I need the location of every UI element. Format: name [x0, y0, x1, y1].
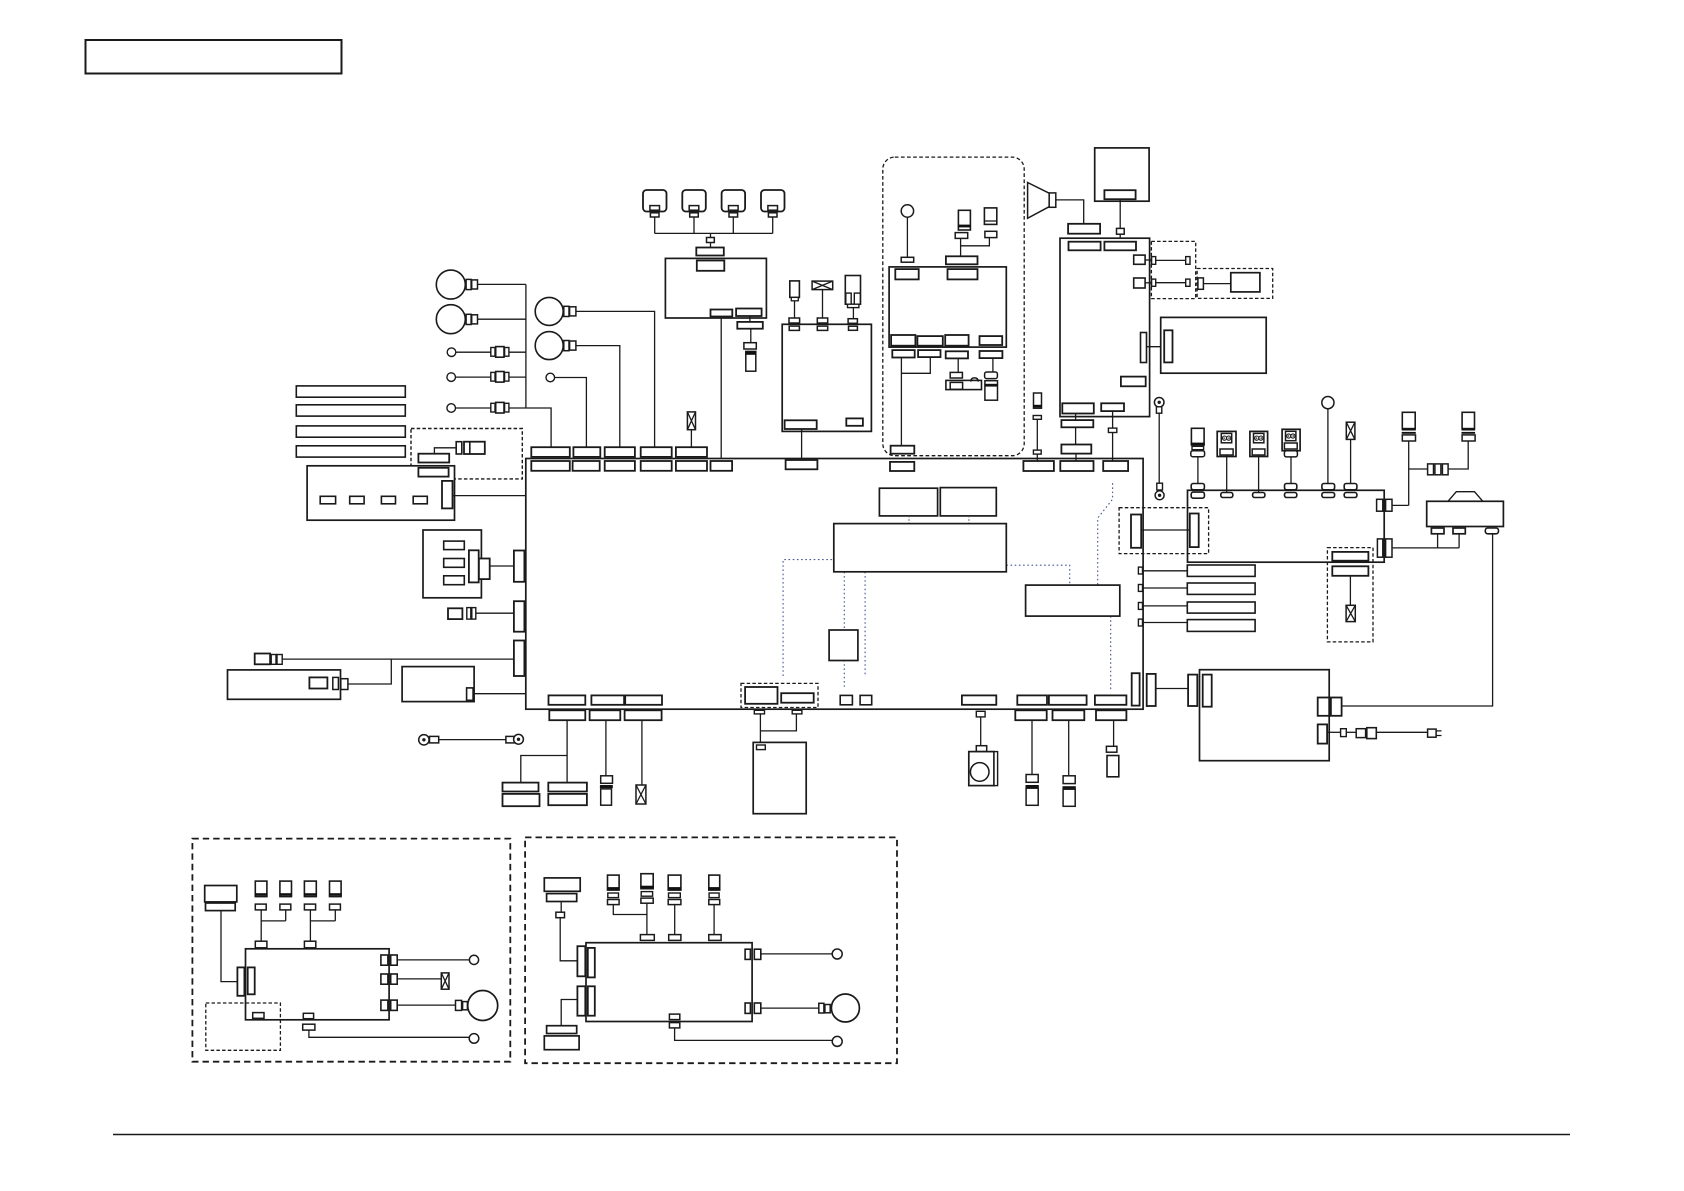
link relay node 1 [879, 488, 937, 516]
option connector P2 [781, 693, 814, 703]
za wire to sensor 2 [397, 959, 469, 961]
inline connector 3x [1428, 464, 1449, 475]
tuner unit box [889, 267, 1006, 347]
junction block JB1 [307, 466, 454, 520]
bus bar B1 [296, 386, 405, 397]
relay bar R2 [1187, 583, 1255, 594]
bottom connector U2b [591, 695, 624, 704]
zb right pair 1 [745, 949, 761, 959]
bus bar B3 [296, 426, 405, 437]
bottom socket V5 small [792, 710, 802, 714]
wire aux to plug [1376, 731, 1427, 733]
audio connector 2 [1104, 242, 1136, 251]
title block (empty) [86, 40, 342, 74]
harness right stub 2 [1138, 585, 1142, 592]
wire L2 [456, 376, 491, 378]
wire tuner1 to T6 [900, 358, 902, 446]
harness left connector E [526, 688, 533, 700]
sensor bulb SB1 [1322, 397, 1334, 409]
bottom socket V4 small [754, 710, 764, 714]
heater right pair 1 [1318, 698, 1342, 716]
FH1 lower cap [1033, 450, 1041, 454]
option socket W2 [1332, 566, 1368, 576]
za right pair B [381, 974, 397, 984]
top connector T2 [573, 447, 600, 457]
wire L1 to bus [509, 351, 526, 353]
wire tuner2 join [901, 357, 930, 373]
inner tiny node 2 [860, 695, 872, 704]
connector H3 [564, 306, 576, 316]
zb left pair 1 [577, 946, 594, 977]
bus bar B4 [296, 446, 405, 457]
za right pair C [381, 1000, 397, 1010]
harness right connector [1131, 515, 1141, 548]
wire port1 [1145, 259, 1152, 261]
fuse F4 [636, 785, 646, 804]
zb wire coil [560, 902, 562, 913]
ring terminal G2 [514, 734, 524, 744]
J3 top pair 2 [817, 318, 827, 330]
top socket S2 [573, 461, 600, 471]
zb pair 4 [709, 935, 721, 950]
diode relay DR1 [1217, 431, 1236, 456]
horn H3 [535, 297, 563, 325]
unit box M2 [402, 667, 474, 702]
wire L2 to bus [509, 376, 526, 378]
wire U1 left pin down to harness [720, 318, 722, 461]
fuse holder FH3 [984, 208, 996, 225]
heater pair [1188, 675, 1212, 707]
zb motor connector [819, 1003, 830, 1013]
za bottom pin [303, 1013, 313, 1018]
wire P2 down [760, 714, 796, 731]
connector L3 pair [491, 402, 509, 413]
fuse holder FH7 [1063, 776, 1076, 807]
dotted link b [843, 572, 845, 688]
bottom socket V1 [549, 710, 585, 720]
battery terminal 3 [1485, 528, 1498, 534]
za wire f1f2 [261, 910, 286, 941]
zb coil pack 2 [544, 1026, 579, 1050]
U1 connector bottom-right [736, 309, 762, 317]
dotted link a [783, 560, 834, 676]
connector L1 pair [491, 347, 509, 358]
JB1 terminal 3 [381, 496, 395, 504]
option connector P1 [745, 687, 777, 704]
tuner connector bottom 3 [945, 335, 968, 346]
connector H2 [466, 314, 477, 324]
lamp L2 [447, 373, 456, 382]
inner unit box 1 [834, 524, 1007, 572]
K1 terminal 1 [444, 541, 465, 550]
fuse holder FH9 [1402, 412, 1416, 441]
top connector T4 [641, 447, 672, 457]
wire tuner4 down [992, 358, 994, 372]
relay RL1 [503, 783, 540, 807]
rf top tab below 2 [1221, 493, 1233, 498]
lamp L1 [447, 348, 456, 357]
bottom connector U3b [625, 695, 662, 704]
fuse F3 [687, 412, 695, 430]
wire inline to FH10 [1448, 441, 1468, 469]
top socket S6 [711, 461, 733, 471]
bottom connector U1b [549, 695, 586, 704]
G2 lug [506, 736, 515, 743]
connector D1 pair [255, 654, 283, 665]
tuner connector top 2 [948, 269, 978, 279]
speaker joint [976, 746, 986, 752]
option connector Q1 [1198, 278, 1204, 289]
za fuse F7 [441, 973, 449, 989]
wire L4 to harness [555, 378, 587, 448]
za sensor bulb 2 [469, 955, 478, 964]
bus bar B2 [296, 405, 405, 416]
battery terminal 2 [1453, 528, 1465, 534]
wire H4 to harness [576, 346, 620, 448]
aux joint [1341, 729, 1347, 737]
fuse holder FH1 [1033, 393, 1042, 408]
top socket S4 [641, 461, 672, 471]
wire FH3 join [961, 238, 990, 246]
wire RL3 down [852, 308, 854, 319]
A1 base connector [901, 257, 914, 262]
connector H1 [466, 279, 477, 289]
zb pair 3 [669, 935, 681, 950]
M1 edge pair [333, 677, 348, 689]
dotted link d [1006, 565, 1069, 585]
top socket S10 [1060, 461, 1093, 471]
wire P1 down [759, 714, 761, 743]
joint connector AB [946, 256, 978, 264]
bottom socket V6 small [976, 711, 985, 717]
za pair 2 [304, 941, 315, 956]
audio bottom connector 1 [1062, 403, 1094, 413]
inner tiny node 1 [840, 695, 852, 704]
wire F8 down [822, 290, 824, 318]
rf right port pair 1 [1377, 499, 1392, 511]
zb wire f4 [713, 905, 715, 935]
wire battery feed [1342, 534, 1493, 706]
zb fuse holder 1 [607, 875, 620, 905]
za wire coil to unit [221, 911, 237, 982]
relay RL2 [548, 783, 587, 806]
dashed option frame 6 [1119, 508, 1209, 554]
wire DR1 down [1226, 455, 1228, 493]
wire C1 to harness [476, 612, 514, 614]
connector H4 [564, 341, 576, 351]
bottom socket V2 [590, 710, 621, 720]
horn H1 [436, 270, 465, 299]
horn H2 [436, 305, 465, 334]
wire aux [1346, 731, 1356, 733]
main harness box [526, 459, 1143, 710]
wire joint2 to S11 [1112, 433, 1114, 462]
tuner connector bottom 2 [917, 336, 942, 346]
audio side port 1 [1134, 255, 1145, 264]
rf top tab below 4 [1285, 493, 1297, 498]
switch S4 [761, 190, 785, 217]
rf right port pair 2 [1377, 539, 1392, 557]
rf left connector [1190, 514, 1199, 548]
fuse F2 body [745, 351, 756, 371]
switch S2 [682, 190, 706, 217]
joint connector J1 [707, 238, 715, 243]
zb wire to coil2 [561, 1000, 577, 1026]
bottom socket V7 [1015, 710, 1046, 720]
K1 terminal 3 [444, 576, 465, 585]
zb coil joint [556, 912, 565, 918]
option connector W1 [1332, 552, 1368, 561]
zb wire to sensor 2 [675, 1028, 833, 1041]
bottom connector U7b [1095, 695, 1127, 704]
radio joint [1117, 228, 1125, 234]
zb wire f1 [613, 905, 647, 915]
top socket S11 [1103, 461, 1128, 471]
tuner connector bottom 1 [891, 335, 915, 346]
zb wire to motor [761, 1007, 819, 1009]
bottom connector U5b [1017, 695, 1047, 704]
wire V3 down [641, 720, 643, 785]
tuner socket 4 [980, 351, 1003, 358]
bottom connector U4b [962, 695, 996, 704]
zb fuse holder 3 [668, 875, 682, 905]
harness right stub 4 [1138, 619, 1142, 626]
harness left connector B pair [514, 551, 538, 582]
wire JB1 to harness [453, 495, 528, 497]
zb left pair 2 [577, 986, 594, 1015]
wire DR2 down [1258, 455, 1260, 493]
audio inner connector [1121, 377, 1146, 387]
wire earth strap [439, 739, 506, 741]
FH1 cap [1033, 416, 1041, 420]
wire L3 to bus [509, 407, 526, 409]
wire E1 to E2 [1158, 413, 1160, 483]
dotted link f [1110, 616, 1112, 690]
fuse holder FH4 [985, 381, 998, 401]
bottom socket V8 [1053, 710, 1085, 720]
top connector T5 [676, 447, 707, 457]
speaker SP1 [969, 752, 998, 786]
rf top tab below 1 [1191, 492, 1204, 498]
dashed sub zone [206, 1003, 281, 1050]
audio connector 1 [1069, 242, 1101, 251]
diode relay DR2 [1250, 431, 1268, 456]
radio unit [1095, 148, 1149, 201]
wire J3 to S7 [801, 429, 803, 460]
connector F2 head [744, 343, 756, 349]
jumper lead 2 [1152, 279, 1190, 286]
zb wire f3 [674, 905, 676, 935]
harness left connector A [528, 481, 539, 509]
fuse F8 [812, 281, 833, 290]
buzzer base [946, 380, 982, 389]
tuner socket 3 [946, 351, 968, 358]
wire D1 to harness [282, 658, 514, 660]
wire V8 down [1068, 720, 1070, 776]
wire H1 to bus [478, 283, 526, 285]
switch box K1 [423, 530, 481, 598]
tuner socket 1 [892, 350, 914, 357]
wire FH8 down [1197, 457, 1199, 484]
service plug [1428, 729, 1442, 737]
zb coil pack [544, 878, 580, 902]
wire H2 to bus [478, 318, 526, 320]
za fuse holder 1 [255, 881, 268, 910]
rf top tab above 6 [1344, 484, 1357, 490]
za fuse holder 4 [329, 881, 342, 910]
wire K1 to harness [490, 565, 514, 567]
dashed option frame 5 [1327, 548, 1373, 642]
za right pair A [381, 955, 397, 965]
wire FH9 branch [1409, 468, 1428, 470]
wire switch S3 lead [732, 217, 734, 233]
connector below U1 [737, 322, 763, 329]
audio bottom connector 2 [1101, 403, 1124, 411]
za wire to fuse [397, 978, 441, 980]
wire Q1 [1203, 283, 1230, 285]
zb wire f2 [646, 903, 648, 934]
wire heater aux [1327, 731, 1341, 733]
control unit U1 [665, 258, 766, 318]
audio unit box [1060, 238, 1150, 416]
wire audio conn1 down [1075, 414, 1077, 421]
wire V2 down [605, 720, 607, 776]
wire L3 [456, 407, 491, 409]
wire horn bus [526, 284, 551, 447]
zb sensor bulb 2 [832, 1036, 842, 1046]
connector O1 pair [456, 442, 485, 454]
wire V9 down [1113, 720, 1115, 746]
bottom socket V3 [625, 710, 662, 720]
unit box M1 [228, 670, 341, 699]
dashed option box 1 [411, 429, 522, 479]
wire to fuse F2 [750, 329, 752, 343]
audio side port 2 [1134, 278, 1145, 288]
wire switch S4 lead [772, 217, 774, 233]
switch S1 [643, 190, 667, 217]
cd connector [1164, 330, 1172, 362]
rf top tab below 5 [1322, 493, 1335, 498]
audio right port [1141, 333, 1147, 363]
wire SB1 down [1327, 409, 1329, 484]
connector O2 [418, 454, 449, 463]
inner small box [829, 630, 858, 661]
J3 connector bottom [785, 420, 817, 429]
zb fuse holder 2 [640, 874, 653, 903]
wire stub to bar 3 [1143, 605, 1188, 607]
sensor probe SP2 [790, 281, 800, 301]
za pair 1 [255, 941, 267, 956]
wire bus drop [710, 233, 712, 237]
zb engine unit [586, 943, 752, 1022]
connector L2 pair [491, 372, 509, 383]
tuner connector top 1 [895, 269, 918, 279]
wire L1 [456, 351, 491, 353]
za bottom socket [303, 1024, 315, 1030]
wire J1 to J2 [710, 243, 712, 248]
FH3 cap [985, 231, 997, 237]
top socket S8 [890, 462, 914, 471]
JB1 terminal 4 [413, 496, 427, 504]
za left pair [237, 967, 254, 995]
wire switch bus [655, 232, 773, 234]
wire DR3 down [1290, 457, 1292, 484]
footer rule [113, 1134, 1570, 1136]
aux pair [1356, 728, 1376, 739]
rf top tab above 1 [1191, 484, 1204, 490]
harness right stub 1 [1138, 567, 1142, 574]
top socket S5 [676, 461, 707, 471]
fuse holder FH2 [958, 210, 971, 230]
M2 edge connector [467, 688, 474, 700]
tuner connector bottom 4 [980, 336, 1003, 345]
diode relay DR3 [1282, 429, 1300, 457]
wire stub to bar 4 [1143, 622, 1188, 624]
rf top tab below 3 [1253, 493, 1265, 498]
U1 connector bottom-left [711, 310, 733, 317]
relay RL3 [845, 276, 860, 308]
dotted link e [1098, 482, 1113, 585]
G1 lug [430, 736, 439, 743]
JB1 terminal 1 [320, 496, 335, 504]
wire stub to bar 1 [1143, 570, 1188, 572]
condenser joint [1106, 746, 1117, 752]
fuse F5 [1346, 422, 1355, 439]
radio connector [1104, 190, 1135, 199]
J3 top pair 1 [789, 318, 800, 330]
zb wire joint to unit [560, 918, 577, 961]
wire SP2 down [794, 301, 796, 318]
zb fuse holder 4 [708, 875, 720, 905]
harness right stub 3 [1138, 603, 1142, 610]
za engine unit [246, 949, 390, 1020]
tuner socket 2 [918, 350, 940, 357]
relay bar R4 [1187, 620, 1255, 632]
wire link to S10 [1075, 454, 1077, 461]
za coil pack [205, 886, 237, 911]
link relay node 2 [940, 488, 996, 516]
noise filter cap [985, 372, 998, 379]
J3 top pair 3 [848, 319, 857, 331]
node stubs [909, 516, 969, 524]
buzzer dome [971, 378, 978, 382]
antenna mast A1 [901, 205, 913, 217]
wire H3 to harness [576, 311, 654, 447]
battery terminal 1 [1431, 528, 1444, 534]
wire stub to bar 2 [1143, 587, 1188, 589]
harness left connector C pair [514, 601, 538, 634]
wire rf to junction [1392, 504, 1409, 506]
option unit Q2 [1231, 273, 1260, 292]
relay fuse box [1188, 490, 1385, 562]
top connector T3 [605, 447, 635, 457]
JB1 connector right [442, 481, 453, 509]
dashed option frame 2 [741, 683, 818, 707]
top connector T1 [531, 447, 570, 457]
ring terminal G1 [419, 735, 429, 745]
wire O1 [434, 448, 456, 454]
buzzer inner [950, 382, 962, 389]
JB1 terminal 2 [350, 496, 364, 504]
connector C1 pair [448, 608, 476, 620]
top socket S7 [786, 460, 818, 469]
zb bottom socket [669, 1023, 679, 1028]
wire V7 down [1031, 720, 1033, 774]
heater control box [1200, 670, 1330, 761]
amp connector [1068, 224, 1100, 234]
jumper lead 1 [1152, 257, 1190, 265]
rf top tab above 4 [1285, 484, 1297, 490]
